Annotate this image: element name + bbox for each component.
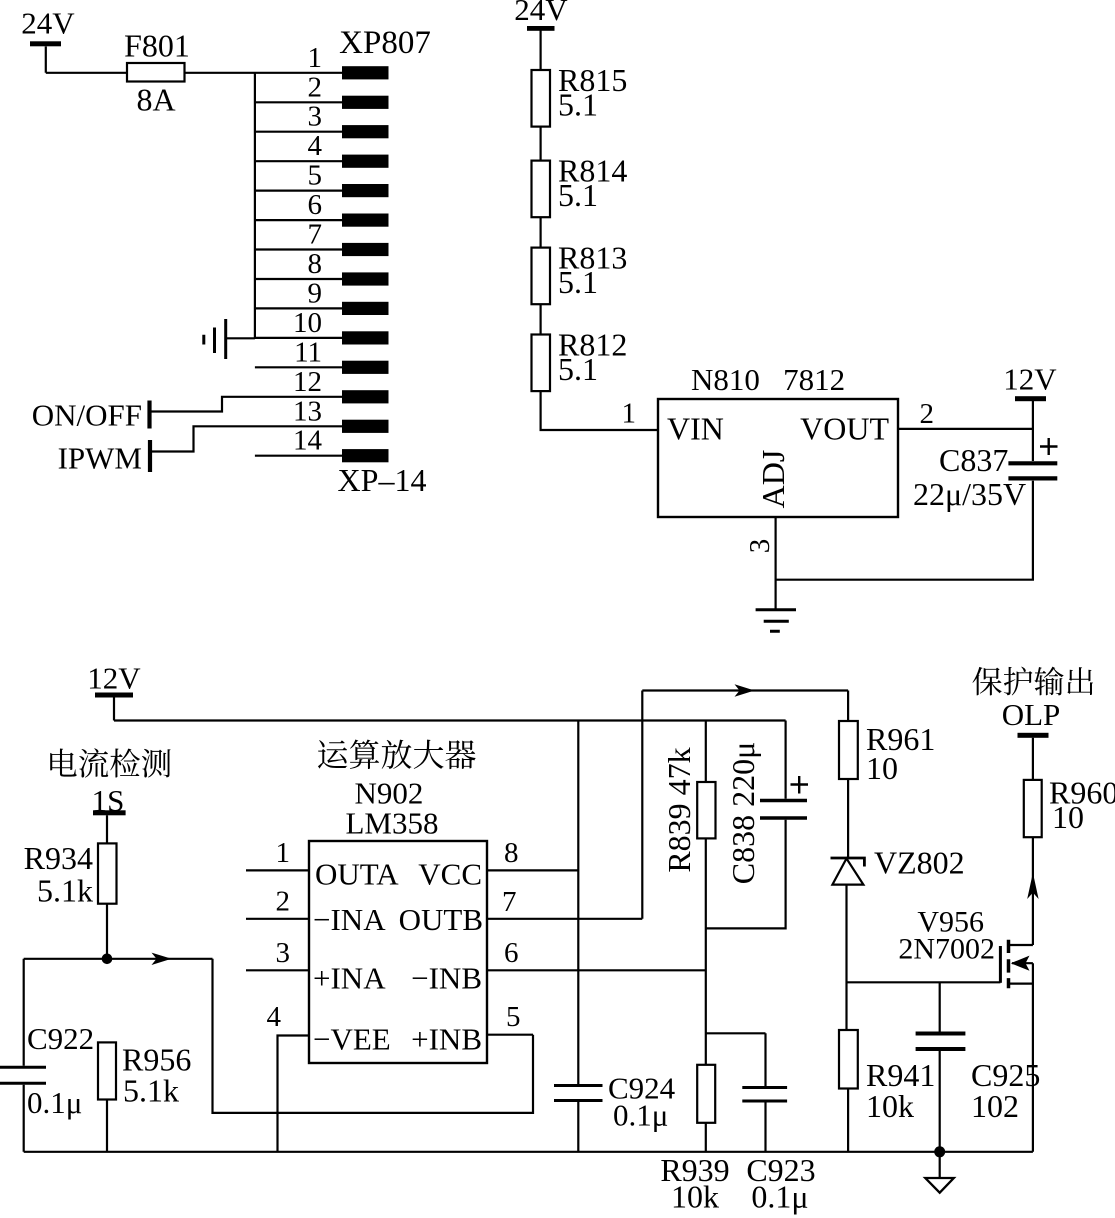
- svg-text:+INB: +INB: [411, 1022, 482, 1057]
- svg-text:N810 7812: N810 7812: [691, 362, 845, 397]
- svg-text:OLP: OLP: [1002, 697, 1061, 732]
- svg-text:5.1: 5.1: [558, 177, 598, 213]
- svg-text:9: 9: [308, 277, 323, 309]
- svg-text:7: 7: [308, 219, 323, 251]
- svg-text:24V: 24V: [514, 0, 568, 27]
- svg-text:2: 2: [308, 71, 323, 103]
- svg-text:LM358: LM358: [346, 806, 439, 841]
- svg-text:ON/OFF: ON/OFF: [32, 398, 142, 433]
- svg-text:1: 1: [308, 42, 323, 74]
- svg-text:−INA: −INA: [313, 902, 386, 937]
- svg-text:−VEE: −VEE: [313, 1022, 391, 1057]
- svg-text:8: 8: [308, 248, 323, 280]
- svg-text:5.1k: 5.1k: [37, 873, 93, 909]
- svg-text:VOUT: VOUT: [800, 411, 889, 447]
- svg-text:13: 13: [293, 395, 322, 427]
- svg-text:11: 11: [294, 336, 322, 368]
- svg-text:5: 5: [506, 1001, 521, 1033]
- svg-text:10: 10: [1052, 799, 1084, 835]
- svg-text:0.1μ: 0.1μ: [613, 1098, 668, 1133]
- svg-text:OUTA: OUTA: [315, 857, 399, 892]
- svg-text:10k: 10k: [866, 1088, 914, 1124]
- svg-text:2N7002: 2N7002: [898, 933, 995, 966]
- svg-text:F801: F801: [124, 28, 190, 64]
- svg-text:IPWM: IPWM: [58, 441, 142, 476]
- svg-text:R839 47k: R839 47k: [661, 747, 697, 872]
- svg-text:3: 3: [308, 101, 323, 133]
- svg-text:−INB: −INB: [411, 961, 482, 996]
- svg-text:5.1: 5.1: [558, 87, 598, 123]
- svg-text:6: 6: [504, 937, 519, 969]
- svg-text:XP807: XP807: [339, 25, 431, 61]
- svg-text:22μ/35V: 22μ/35V: [913, 476, 1026, 512]
- svg-text:0.1μ: 0.1μ: [751, 1179, 808, 1215]
- svg-text:2: 2: [920, 398, 935, 430]
- svg-text:5: 5: [308, 160, 323, 192]
- svg-text:7: 7: [502, 886, 517, 918]
- svg-text:VIN: VIN: [667, 411, 724, 447]
- svg-text:+INA: +INA: [313, 961, 386, 996]
- svg-text:14: 14: [293, 425, 323, 457]
- svg-text:10: 10: [293, 307, 322, 339]
- svg-text:C837: C837: [939, 442, 1008, 478]
- svg-text:10k: 10k: [671, 1179, 719, 1215]
- svg-text:5.1: 5.1: [558, 264, 598, 300]
- svg-text:8: 8: [504, 837, 519, 869]
- svg-text:XP–14: XP–14: [338, 462, 427, 498]
- svg-text:C838 220μ: C838 220μ: [725, 742, 761, 885]
- svg-text:3: 3: [276, 937, 291, 969]
- svg-text:24V: 24V: [21, 6, 75, 41]
- svg-text:4: 4: [267, 1001, 282, 1033]
- svg-text:1: 1: [276, 837, 291, 869]
- svg-text:OUTB: OUTB: [399, 902, 483, 937]
- svg-text:12V: 12V: [87, 661, 141, 696]
- svg-text:3: 3: [744, 539, 776, 554]
- svg-text:VCC: VCC: [418, 857, 482, 892]
- svg-text:12V: 12V: [1003, 362, 1057, 397]
- svg-text:1S: 1S: [92, 783, 125, 818]
- svg-text:1: 1: [622, 398, 637, 430]
- svg-text:4: 4: [308, 130, 323, 162]
- svg-text:8A: 8A: [136, 82, 175, 118]
- svg-text:12: 12: [293, 366, 322, 398]
- svg-text:2: 2: [276, 886, 291, 918]
- svg-text:0.1μ: 0.1μ: [27, 1085, 82, 1120]
- svg-text:5.1: 5.1: [558, 351, 598, 387]
- svg-text:6: 6: [308, 189, 323, 221]
- svg-text:R934: R934: [24, 840, 93, 876]
- svg-text:5.1k: 5.1k: [123, 1073, 179, 1109]
- svg-text:10: 10: [866, 750, 898, 786]
- svg-text:VZ802: VZ802: [874, 845, 965, 881]
- svg-text:102: 102: [971, 1088, 1019, 1124]
- svg-text:C922: C922: [27, 1021, 94, 1056]
- svg-text:ADJ: ADJ: [755, 450, 791, 509]
